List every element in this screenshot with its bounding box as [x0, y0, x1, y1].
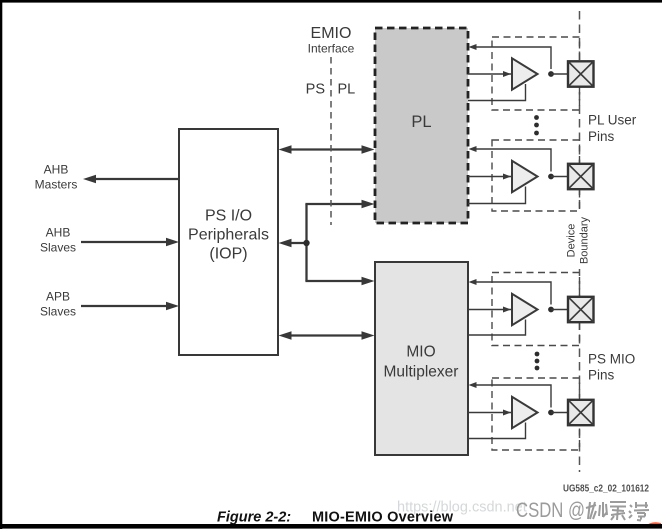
label AHB Masters	[35, 163, 78, 192]
svg-text:APB: APB	[46, 290, 70, 304]
wire input to block (cell 3)	[469, 279, 552, 305]
block PL	[375, 28, 468, 223]
IO pad pin (cell 4)	[568, 400, 594, 425]
wire output from block into buffer (cell 1)	[468, 71, 513, 77]
wire input to block (cell 4)	[469, 382, 552, 408]
wire output from block into buffer (cell 3)	[468, 307, 513, 313]
wire output-enable (cell 4)	[468, 423, 526, 439]
tri-state buffer (cell 2)	[512, 161, 538, 192]
tri-state buffer (cell 1)	[512, 58, 538, 89]
svg-text:UG585_c2_02_101612: UG585_c2_02_101612	[563, 484, 649, 495]
label APB Slaves	[40, 290, 76, 319]
wire IOP-PL double arrow	[279, 145, 375, 154]
label EMIO Interface	[308, 25, 355, 56]
svg-text:Pins: Pins	[588, 368, 615, 383]
svg-text:PS I/O: PS I/O	[205, 208, 252, 225]
watermark chinese characters (approximated strokes)	[586, 502, 649, 521]
svg-text:PL User: PL User	[588, 113, 637, 128]
svg-text:EMIO: EMIO	[311, 25, 352, 42]
IO buffer cell 4 dashed box	[492, 378, 580, 450]
svg-text:Multiplexer: Multiplexer	[384, 364, 459, 381]
svg-text:PL: PL	[411, 113, 431, 131]
label PS MIO Pins	[588, 352, 635, 383]
label AHB Slaves	[40, 226, 76, 255]
wire AHB Masters arrow out of IOP	[83, 175, 179, 184]
svg-text:MIO-EMIO Overview: MIO-EMIO Overview	[312, 510, 454, 526]
wire buffer to pad (cell 3)	[551, 309, 568, 311]
ellipsis dots between cells 1-2	[534, 115, 539, 135]
junction dot (cell 1)	[548, 71, 554, 77]
wire branch vertical trunk	[279, 200, 375, 286]
tri-state buffer (cell 4)	[512, 397, 538, 428]
wire output from block into buffer (cell 4)	[468, 410, 513, 416]
svg-text:Interface: Interface	[308, 42, 355, 56]
label Device Boundary (rotated)	[564, 213, 595, 269]
wire output-enable (cell 2)	[468, 187, 526, 204]
wire AHB Slaves arrow into IOP	[81, 238, 179, 247]
wire input to block (cell 1)	[469, 44, 552, 69]
svg-text:Masters: Masters	[35, 178, 78, 192]
wire IOP-MIO double arrow	[279, 331, 375, 340]
svg-text:AHB: AHB	[46, 226, 71, 240]
block MIO Multiplexer	[375, 262, 468, 455]
wire buffer to pad (cell 2)	[551, 176, 568, 178]
svg-text:Slaves: Slaves	[40, 305, 76, 319]
IO pad pin (cell 3)	[568, 297, 594, 322]
block IOP: PS I/O Peripherals	[179, 129, 278, 355]
svg-text:AHB: AHB	[44, 163, 69, 177]
svg-text:Boundary: Boundary	[579, 216, 591, 264]
svg-text:Slaves: Slaves	[40, 241, 76, 255]
junction dot (cell 4)	[548, 410, 554, 416]
svg-text:(IOP): (IOP)	[209, 246, 247, 263]
junction dot (cell 3)	[548, 307, 554, 313]
tri-state buffer (cell 3)	[512, 294, 538, 325]
ellipsis dots between cells 3-4	[535, 352, 540, 371]
IO buffer cell 2 dashed box	[492, 140, 580, 211]
svg-text:PL: PL	[338, 82, 356, 98]
junction dot	[303, 240, 309, 246]
IO buffer cell 3 dashed box	[492, 273, 580, 346]
watermark csdn logo orange fragment	[645, 522, 661, 526]
svg-text:Peripherals: Peripherals	[188, 227, 269, 244]
svg-text:CSDN @: CSDN @	[516, 499, 585, 522]
wire buffer to pad (cell 1)	[551, 73, 568, 75]
IO pad pin (cell 2)	[568, 164, 594, 189]
junction dot (cell 2)	[548, 174, 554, 180]
IO pad pin (cell 1)	[568, 61, 594, 86]
wire APB Slaves arrow into IOP	[81, 302, 179, 311]
svg-text:Device: Device	[566, 224, 578, 258]
wire output-enable (cell 1)	[468, 84, 526, 101]
caption rule bar	[0, 524, 662, 529]
wire input to block (cell 2)	[469, 146, 552, 172]
wire buffer to pad (cell 4)	[551, 412, 568, 414]
wire output-enable (cell 3)	[468, 320, 526, 336]
label PL User Pins	[588, 113, 637, 145]
svg-text:PS: PS	[306, 82, 325, 98]
svg-text:Pins: Pins	[588, 129, 615, 144]
EMIO interface boundary dashed line	[330, 57, 332, 225]
device boundary dashed line	[579, 11, 581, 472]
svg-text:Figure 2-2:: Figure 2-2:	[217, 510, 291, 526]
svg-text:PS MIO: PS MIO	[588, 352, 635, 367]
IO buffer cell 1 dashed box	[492, 37, 580, 110]
wire output from block into buffer (cell 2)	[468, 174, 513, 180]
svg-text:MIO: MIO	[406, 344, 435, 361]
